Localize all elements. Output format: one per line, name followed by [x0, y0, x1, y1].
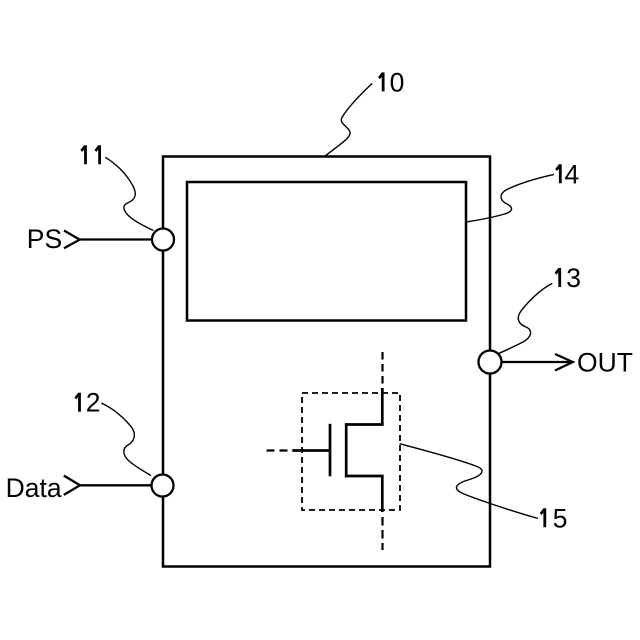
reference numeral 12 — [74, 388, 100, 418]
leader squiggle to terminal 12 — [101, 403, 151, 476]
wire: OUT output line — [490, 361, 571, 363]
svg-text:5: 5 — [553, 503, 568, 533]
reference numeral 10 — [378, 67, 404, 97]
terminal circle 11 (PS pad) — [152, 229, 174, 251]
leader squiggle to block 10 — [324, 83, 372, 157]
device block 10 (outer rectangle) — [163, 157, 490, 567]
leader squiggle to transistor 15 — [400, 444, 538, 519]
Data input arrowhead — [64, 476, 80, 495]
gate line dashed continuation — [267, 449, 291, 451]
reference numeral 15 — [540, 503, 568, 533]
wire: Data input line — [80, 484, 163, 486]
svg-text:OUT: OUT — [577, 347, 633, 377]
reference numeral 14 — [555, 159, 579, 189]
transistor Q (15): source bar — [345, 475, 384, 478]
leader squiggle to terminal 13 — [499, 283, 553, 353]
transistor Q (15): gate bar — [329, 424, 332, 477]
transistor Q (15): source lead — [381, 475, 384, 512]
transistor Q (15): drain lead — [381, 388, 384, 426]
svg-text:4: 4 — [565, 159, 580, 189]
transistor Q (15): drain bar — [345, 423, 384, 426]
svg-text:PS: PS — [27, 224, 62, 254]
PS input arrowhead — [64, 231, 80, 249]
transistor Q (15): channel bar — [345, 423, 348, 477]
terminal circle 13 (OUT pad) — [479, 351, 502, 374]
wire: PS input line — [80, 238, 163, 240]
reference numeral 11 — [80, 145, 101, 164]
leader squiggle to terminal 11 — [105, 157, 153, 230]
svg-text:0: 0 — [390, 67, 405, 97]
svg-text:3: 3 — [566, 263, 581, 293]
section line (vertical dashed), lower part — [381, 517, 383, 550]
svg-text:2: 2 — [86, 388, 101, 418]
svg-text:Data: Data — [6, 473, 62, 503]
transistor 15 dashed enclosure box — [302, 393, 400, 510]
section line (vertical dashed), upper part — [381, 352, 383, 392]
transistor Q (15): gate lead — [292, 449, 330, 452]
reference numeral 13 — [555, 263, 581, 293]
OUT output arrowhead — [555, 354, 573, 371]
terminal circle 12 (Data pad) — [152, 475, 174, 497]
memory block 14 (inner rectangle) — [187, 182, 466, 321]
leader squiggle to block 14 — [467, 174, 554, 222]
